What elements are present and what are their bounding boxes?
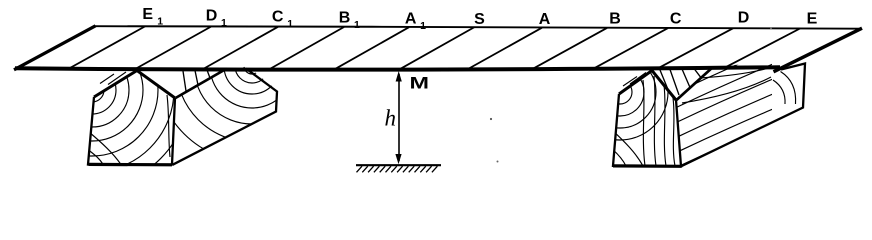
- right support front-face wood grain arcs: [572, 44, 675, 166]
- right support back-face wood grain: [773, 72, 796, 105]
- left support front pentagon outline: [88, 97, 175, 165]
- wire graduation line E: [724, 29, 800, 69]
- wire graduation line B: [531, 28, 607, 70]
- svg-text:E: E: [142, 6, 153, 23]
- svg-text:S: S: [474, 11, 485, 28]
- plank left end edge: [14, 26, 96, 70]
- right support front-face vertical grain: [643, 80, 645, 166]
- ground hatching: [357, 166, 438, 172]
- svg-text:1: 1: [287, 18, 293, 30]
- svg-text:D: D: [738, 9, 750, 26]
- left support front-face wood grain: [0, 0, 189, 187]
- svg-text:E: E: [807, 10, 818, 27]
- wire graduation line S: [398, 27, 474, 70]
- right support back lower edges: [681, 64, 805, 167]
- plank bottom (front) edge: [15, 67, 780, 69]
- wire graduation line D: [657, 28, 733, 69]
- right support roof grain strokes: [623, 73, 646, 87]
- wire graduation line C: [592, 28, 668, 69]
- svg-text:1: 1: [420, 20, 426, 32]
- left support side-face wood grain: [156, 0, 348, 162]
- svg-text:M: M: [410, 75, 430, 93]
- ground line: [356, 164, 441, 166]
- left wooden support block: [0, 0, 348, 187]
- left support roof grain strokes: [100, 72, 126, 85]
- left support ridge edges: [94, 71, 175, 99]
- scan specks: [490, 118, 492, 120]
- plank top (back) edge: [95, 26, 861, 29]
- height arrow (double headed): [398, 74, 400, 161]
- wire graduation line B1: [268, 27, 344, 70]
- svg-text:B: B: [339, 9, 351, 26]
- right support ridge edges: [619, 71, 676, 101]
- right support side-face wood grain: [660, 19, 810, 176]
- left support back lower edges: [173, 69, 278, 165]
- wire graduation line E1: [69, 26, 145, 68]
- wire graduation line A1: [333, 27, 409, 70]
- right support front pentagon outline: [613, 94, 681, 166]
- svg-text:A: A: [539, 11, 551, 28]
- wire graduation line C1: [202, 27, 278, 70]
- svg-text:D: D: [206, 7, 218, 24]
- svg-text:1: 1: [157, 16, 163, 28]
- svg-text:C: C: [670, 10, 682, 27]
- right wooden support block: [572, 19, 810, 176]
- plank right end edge: [774, 28, 863, 72]
- svg-text:B: B: [609, 10, 621, 27]
- svg-text:1: 1: [354, 19, 360, 31]
- svg-text:A: A: [405, 10, 417, 27]
- svg-text:C: C: [272, 8, 284, 25]
- wire graduation line A: [466, 28, 542, 70]
- left support back roof edge: [176, 69, 227, 98]
- svg-text:1: 1: [221, 17, 227, 29]
- right support back roof edge: [677, 67, 714, 100]
- wire graduation line D1: [135, 27, 211, 70]
- svg-text:h: h: [385, 106, 397, 131]
